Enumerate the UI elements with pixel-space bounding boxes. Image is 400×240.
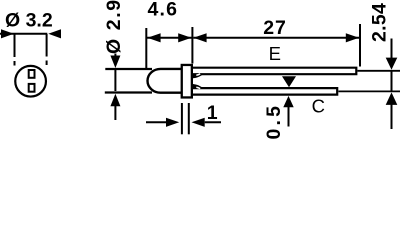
leader shaft between for 2.9 — [114, 70, 116, 91]
extension line right of 1 — [188, 103, 190, 134]
svg-text:0.5: 0.5 — [263, 103, 285, 140]
extension line left of 1 — [181, 103, 183, 134]
up arrowhead 2.9 — [110, 94, 120, 106]
extension line right of 27 — [359, 24, 361, 67]
arrowhead left of 27 — [193, 33, 206, 42]
leader shaft above 2.54 — [391, 39, 393, 59]
flange — [182, 65, 192, 98]
arrowhead left of 3.2 dim — [1, 29, 14, 38]
svg-text:Ø 3.2: Ø 3.2 — [5, 10, 53, 32]
leader shaft below 2.54 — [391, 105, 393, 130]
bottom view circle — [15, 66, 46, 97]
svg-text:27: 27 — [263, 17, 286, 39]
lead cross-section square bottom — [29, 84, 35, 92]
svg-text:Ø 2.9: Ø 2.9 — [103, 0, 125, 54]
up arrowhead 0.5 — [283, 96, 293, 107]
arrowhead right of 4.6 — [178, 33, 191, 42]
svg-text:C: C — [312, 96, 325, 117]
leader shaft between 2.54 — [391, 71, 393, 91]
leader shaft below for 2.9 — [114, 106, 116, 120]
down arrowhead 2.9 — [110, 56, 120, 69]
svg-text:E: E — [269, 43, 281, 64]
extension line body bottom for 2.9 — [105, 91, 152, 93]
arrowhead right of 1 — [192, 118, 205, 127]
extension line from lead E end — [358, 70, 400, 72]
lead E (top) — [190, 67, 357, 76]
svg-text:1: 1 — [207, 102, 218, 124]
lead cross-section square top — [29, 70, 35, 78]
extension line right of 4.6 (flange right) — [191, 27, 193, 64]
extension line right of 3.2 dim — [46, 34, 48, 57]
dimension line 3.2 — [0, 33, 47, 35]
dimension line 27 — [193, 37, 359, 39]
down arrowhead 2.54 — [386, 58, 398, 70]
dimension line 4.6 — [146, 37, 192, 39]
svg-text:4.6: 4.6 — [148, 0, 179, 21]
arrowhead right of 3.2 dim — [48, 29, 61, 38]
extension line body top for 2.9 — [105, 68, 152, 70]
extension line left of 4.6 (dome left) — [145, 28, 147, 68]
arrowhead left of 4.6 — [147, 33, 160, 42]
lead C (bottom) — [190, 87, 338, 96]
extension line left of 3.2 dim — [14, 34, 16, 57]
dim line right of 1 — [205, 121, 221, 123]
leader shaft 0.5 — [288, 107, 290, 127]
lead E bend hook — [190, 72, 204, 78]
dim line left of 1 — [146, 121, 166, 123]
svg-text:2.54: 2.54 — [369, 3, 391, 42]
lead C bend hook — [190, 84, 204, 90]
extension line from lead C end — [338, 90, 400, 92]
up arrowhead 2.54 — [386, 92, 398, 105]
leader shaft above for 2.9 — [114, 54, 116, 58]
arrowhead left of 1 — [166, 118, 179, 127]
LED body with dome — [148, 69, 182, 93]
down arrowhead between leads — [282, 76, 296, 87]
arrowhead right of 27 — [346, 33, 359, 42]
